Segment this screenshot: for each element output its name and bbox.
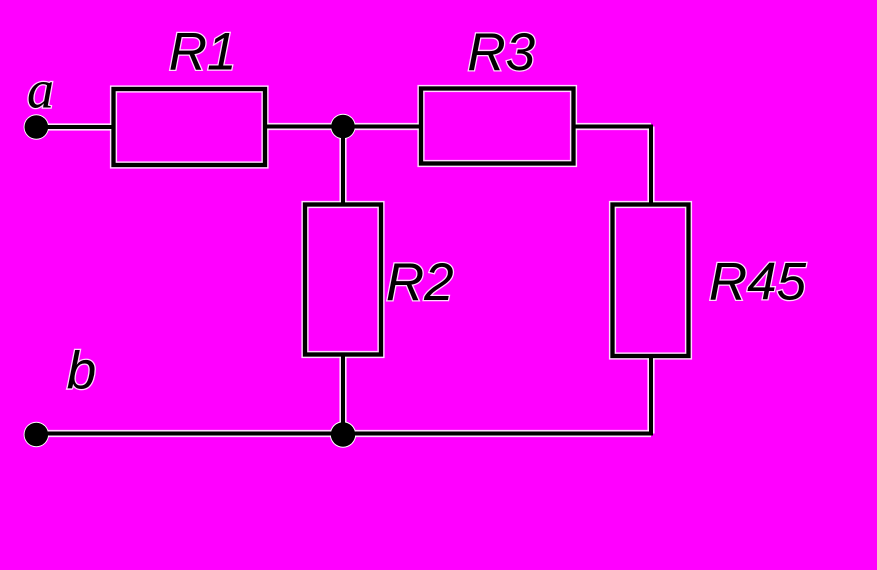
- bottom wire b terminal to right corner: [36, 432, 651, 436]
- wire R3 right to corner: [574, 125, 652, 129]
- svg-text:R45: R45: [709, 253, 807, 312]
- wire R45 bottom down: [649, 356, 653, 436]
- svg-text:a: a: [27, 60, 54, 120]
- wire corner down to R45: [649, 125, 653, 205]
- wire R2 bottom to bottom node: [341, 355, 345, 436]
- junction node top: [331, 115, 355, 139]
- resistor R2: [305, 205, 381, 355]
- resistor R3: [421, 89, 574, 164]
- svg-text:R1: R1: [169, 23, 237, 82]
- wire R1 to node to R3: [265, 125, 421, 129]
- terminal b dot: [25, 423, 49, 447]
- svg-text:b: b: [67, 342, 96, 401]
- terminal a dot: [25, 115, 49, 139]
- junction node bottom: [331, 422, 355, 446]
- wire a terminal to R1: [36, 125, 113, 129]
- resistor R45: [613, 205, 689, 357]
- wire node down to R2: [341, 127, 345, 205]
- resistor R1: [114, 89, 266, 165]
- white halo underlay for wires and boxes: [24, 89, 689, 448]
- svg-text:R3: R3: [467, 23, 535, 82]
- svg-text:R2: R2: [386, 253, 454, 312]
